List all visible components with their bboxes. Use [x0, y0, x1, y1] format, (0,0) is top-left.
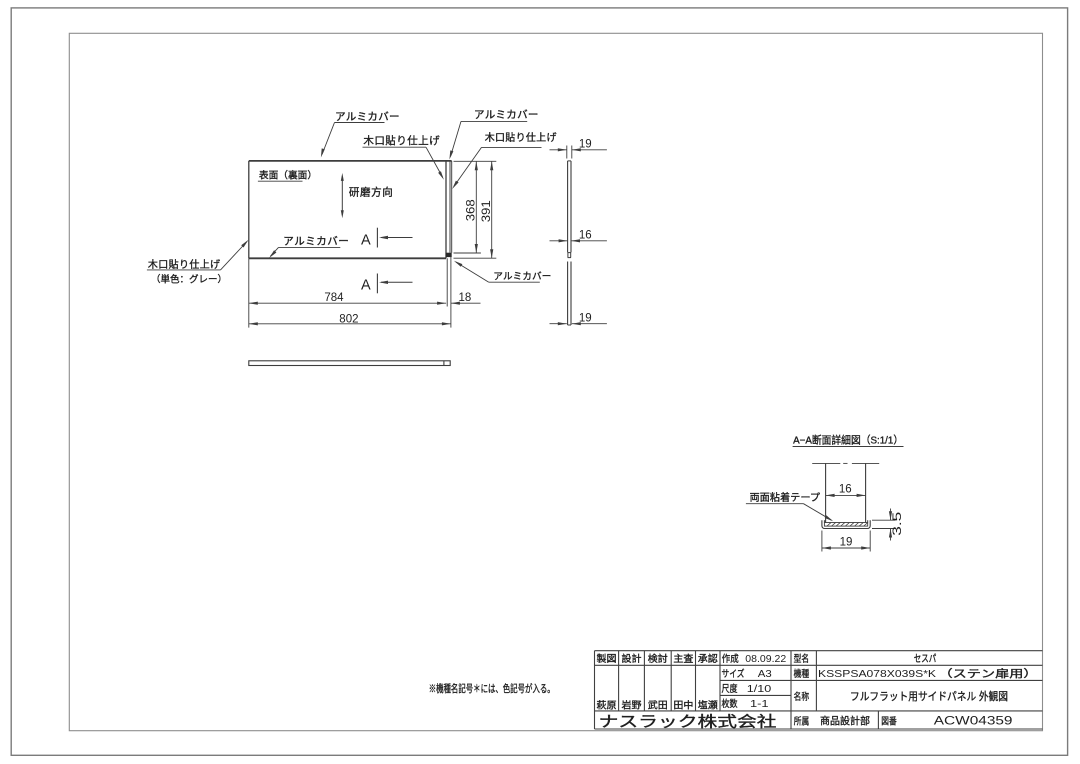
svg-text:16: 16 — [839, 484, 852, 496]
svg-text:368: 368 — [466, 199, 478, 221]
svg-text:主査: 主査 — [673, 652, 693, 665]
svg-text:A−A断面詳細図（S:1/1）: A−A断面詳細図（S:1/1） — [793, 433, 903, 446]
svg-text:802: 802 — [339, 314, 358, 326]
svg-text:枚数: 枚数 — [722, 697, 738, 710]
svg-text:1-1: 1-1 — [750, 698, 769, 710]
svg-text:名称: 名称 — [794, 690, 810, 703]
svg-text:武田: 武田 — [648, 698, 668, 711]
svg-text:08.09.22: 08.09.22 — [745, 653, 786, 665]
svg-text:（単色：グレー）: （単色：グレー） — [151, 273, 227, 285]
svg-text:製図: 製図 — [597, 652, 617, 665]
svg-text:A: A — [361, 233, 371, 249]
svg-text:セスパ: セスパ — [914, 653, 937, 665]
svg-text:1/10: 1/10 — [747, 683, 772, 695]
svg-text:サイズ: サイズ — [722, 667, 745, 680]
svg-text:表面（裏面）: 表面（裏面） — [259, 168, 317, 181]
svg-text:塩瀬: 塩瀬 — [698, 698, 718, 711]
svg-text:商品設計部: 商品設計部 — [820, 715, 870, 728]
svg-text:391: 391 — [481, 200, 493, 222]
svg-text:ACW04359: ACW04359 — [934, 716, 1013, 728]
svg-text:木口貼り仕上げ: 木口貼り仕上げ — [148, 258, 221, 271]
svg-text:3.5: 3.5 — [892, 512, 904, 536]
svg-text:18: 18 — [459, 292, 472, 304]
svg-text:所属: 所属 — [794, 716, 810, 728]
svg-text:19: 19 — [579, 139, 592, 151]
svg-text:両面粘着テープ: 両面粘着テープ — [750, 491, 821, 504]
svg-text:KSSPSA078X039S*K: KSSPSA078X039S*K — [818, 668, 936, 680]
svg-text:フルフラット用サイドパネル 外観図: フルフラット用サイドパネル 外観図 — [850, 689, 1008, 703]
svg-text:岩野: 岩野 — [622, 698, 642, 711]
svg-text:田中: 田中 — [673, 698, 693, 711]
svg-text:※機種名記号＊には、色記号が入る。: ※機種名記号＊には、色記号が入る。 — [429, 682, 555, 695]
svg-text:木口貼り仕上げ: 木口貼り仕上げ — [363, 134, 440, 147]
svg-text:19: 19 — [579, 313, 592, 325]
svg-text:研磨方向: 研磨方向 — [349, 185, 393, 198]
svg-text:検討: 検討 — [648, 652, 668, 665]
svg-text:図番: 図番 — [881, 716, 897, 728]
svg-text:型名: 型名 — [794, 652, 810, 665]
svg-text:アルミカバー: アルミカバー — [283, 235, 349, 247]
svg-text:19: 19 — [840, 536, 853, 548]
svg-text:ナスラック株式会社: ナスラック株式会社 — [599, 713, 777, 730]
svg-text:16: 16 — [579, 230, 592, 242]
svg-text:萩原: 萩原 — [597, 699, 617, 711]
svg-text:（ステン扉用）: （ステン扉用） — [939, 667, 1038, 680]
svg-text:木口貼り仕上げ: 木口貼り仕上げ — [485, 131, 557, 144]
svg-text:アルミカバー: アルミカバー — [335, 111, 400, 123]
svg-text:尺度: 尺度 — [722, 682, 738, 695]
svg-text:機種: 機種 — [794, 667, 810, 680]
svg-text:承認: 承認 — [698, 652, 718, 665]
svg-text:アルミカバー: アルミカバー — [474, 109, 539, 121]
svg-text:A3: A3 — [758, 668, 772, 680]
svg-text:設計: 設計 — [622, 652, 642, 665]
svg-text:784: 784 — [324, 292, 344, 304]
svg-text:A: A — [361, 278, 371, 294]
svg-text:アルミカバー: アルミカバー — [493, 271, 551, 282]
svg-text:作成: 作成 — [722, 653, 739, 665]
